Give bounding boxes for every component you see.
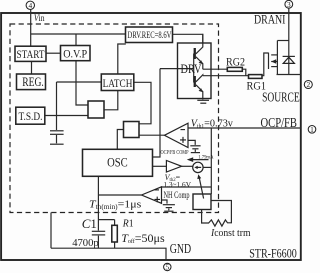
svg-text:1: 1: [310, 125, 314, 134]
svg-text:DRV: DRV: [181, 62, 202, 76]
svg-text:OSC: OSC: [107, 154, 128, 169]
svg-text:LATCH: LATCH: [103, 76, 133, 90]
svg-text:SOURCE: SOURCE: [262, 91, 300, 106]
svg-text:Vth1=0.73v: Vth1=0.73v: [191, 118, 234, 130]
svg-text:3: 3: [287, 0, 291, 9]
svg-text:RG1: RG1: [247, 79, 267, 92]
svg-text:5: 5: [165, 263, 169, 272]
svg-text:GND: GND: [170, 242, 191, 257]
svg-text:1.3~1.6V: 1.3~1.6V: [163, 181, 191, 189]
svg-text:4700p: 4700p: [72, 237, 99, 249]
svg-text:START: START: [17, 48, 45, 61]
svg-text:Iconst trm: Iconst trm: [210, 228, 251, 239]
svg-text:Toff=50μs: Toff=50μs: [121, 231, 165, 245]
svg-text:C1: C1: [82, 216, 97, 231]
svg-text:DRV.REC=8.6V: DRV.REC=8.6V: [128, 31, 172, 41]
svg-text:OCP/FB COMP: OCP/FB COMP: [161, 150, 189, 156]
svg-text:Vin: Vin: [34, 13, 45, 23]
svg-text:R1: R1: [122, 218, 134, 229]
svg-text:REG.: REG.: [22, 75, 44, 89]
svg-text:O.V.P: O.V.P: [63, 48, 87, 61]
svg-text:RG2: RG2: [226, 55, 245, 68]
svg-text:NH Comp: NH Comp: [164, 190, 190, 200]
svg-text:OCP/FB: OCP/FB: [261, 115, 298, 130]
svg-text:1.79mA: 1.79mA: [198, 154, 213, 160]
svg-text:STR-F6600: STR-F6600: [249, 247, 297, 261]
svg-text:4: 4: [28, 1, 32, 10]
svg-text:Tth(min)=1μs: Tth(min)=1μs: [89, 199, 142, 211]
svg-text:T.S.D.: T.S.D.: [19, 110, 43, 123]
svg-text:2: 2: [306, 80, 310, 89]
svg-text:DRANI: DRANI: [254, 13, 286, 27]
